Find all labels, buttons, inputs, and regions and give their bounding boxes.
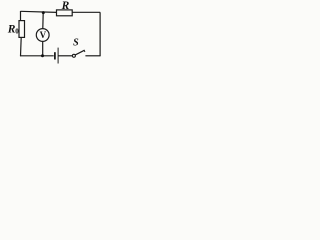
wire bottom-right segment [85, 55, 100, 57]
wire top-right segment [72, 11, 100, 13]
wire battery to switch segment [58, 55, 72, 57]
wire voltmeter branch upper [42, 13, 44, 29]
battery plate short (negative) [54, 52, 56, 59]
wire left edge lower [20, 37, 23, 56]
resistor R [57, 10, 73, 16]
svg-text:V: V [40, 30, 47, 40]
node junction dot top [42, 11, 45, 14]
node junction dot bottom [41, 54, 44, 57]
svg-text:0: 0 [15, 28, 19, 36]
voltmeter U1 [36, 29, 49, 42]
switch S contact tick [83, 50, 86, 52]
switch S pivot [72, 54, 75, 57]
wire bottom-left segment [20, 55, 54, 57]
battery plate long (positive) [57, 48, 59, 64]
svg-text:S: S [73, 38, 79, 49]
wire left edge upper [20, 11, 22, 21]
switch S blade [76, 50, 85, 55]
wire top-left segment [21, 11, 57, 12]
svg-text:R: R [61, 0, 70, 12]
wire right edge [99, 12, 101, 56]
wire voltmeter branch lower [42, 41, 44, 56]
resistor R0 [19, 21, 25, 38]
